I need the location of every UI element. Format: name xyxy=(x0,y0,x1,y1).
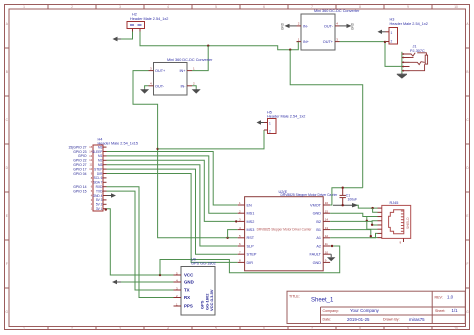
svg-text:1: 1 xyxy=(23,326,25,330)
svg-text:RST: RST xyxy=(247,236,255,240)
svg-text:6: 6 xyxy=(263,5,265,9)
svg-text:SLP: SLP xyxy=(247,244,255,248)
svg-text:DIR: DIR xyxy=(97,172,103,176)
svg-text:OUT-: OUT- xyxy=(324,24,334,28)
svg-text:GND: GND xyxy=(184,280,194,285)
svg-text:OUT+: OUT+ xyxy=(323,40,334,44)
svg-text:Sheet:: Sheet: xyxy=(435,309,445,313)
svg-text:2: 2 xyxy=(71,326,73,330)
svg-text:5V 2: 5V 2 xyxy=(96,203,103,207)
svg-text:12: 12 xyxy=(325,234,329,238)
svg-text:Header Male 2.54_1x2: Header Male 2.54_1x2 xyxy=(130,17,168,21)
svg-text:GPIO 23: GPIO 23 xyxy=(73,150,86,154)
svg-text:STEP: STEP xyxy=(247,253,257,257)
svg-text:16: 16 xyxy=(325,201,329,205)
svg-text:M1: M1 xyxy=(98,154,103,158)
svg-text:GND: GND xyxy=(281,22,285,30)
svg-text:H3: H3 xyxy=(390,18,395,22)
svg-text:3: 3 xyxy=(119,326,121,330)
svg-text:Header Male 2.54_1x2: Header Male 2.54_1x2 xyxy=(267,115,305,119)
svg-text:E: E xyxy=(466,214,468,218)
svg-text:Date:: Date: xyxy=(323,318,332,322)
svg-text:8: 8 xyxy=(359,5,361,9)
svg-text:FAULT: FAULT xyxy=(309,253,321,257)
svg-text:4: 4 xyxy=(167,5,169,9)
svg-text:A2: A2 xyxy=(316,244,321,248)
svg-text:SDA 7: SDA 7 xyxy=(93,181,102,185)
svg-text:9: 9 xyxy=(407,5,409,9)
svg-text:RJ45: RJ45 xyxy=(390,201,399,205)
svg-text:Mini 360 DC-DC Converter: Mini 360 DC-DC Converter xyxy=(167,58,213,62)
svg-text:1: 1 xyxy=(391,31,393,35)
svg-text:3: 3 xyxy=(119,5,121,9)
svg-text:6: 6 xyxy=(263,326,265,330)
svg-text:PPS: PPS xyxy=(184,304,193,309)
svg-text:SCL 6: SCL 6 xyxy=(94,176,103,180)
svg-text:100uF: 100uF xyxy=(348,198,358,202)
svg-text:MS2: MS2 xyxy=(247,220,255,224)
svg-text:5V 3: 5V 3 xyxy=(96,198,103,202)
svg-text:Your Company: Your Company xyxy=(350,308,380,313)
svg-text:7: 7 xyxy=(311,5,313,9)
svg-text:EN: EN xyxy=(247,203,253,207)
svg-text:OUT-: OUT- xyxy=(155,84,165,88)
svg-text:B: B xyxy=(466,70,468,74)
svg-text:Sheet_1: Sheet_1 xyxy=(311,298,334,304)
svg-text:7: 7 xyxy=(311,326,313,330)
svg-text:2: 2 xyxy=(391,40,393,44)
svg-text:E: E xyxy=(6,214,8,218)
svg-text:Mini 360 DC-DC Converter: Mini 360 DC-DC Converter xyxy=(314,9,360,13)
svg-text:13: 13 xyxy=(325,226,329,230)
svg-text:1/1: 1/1 xyxy=(452,308,459,313)
svg-text:VMOT: VMOT xyxy=(310,203,322,207)
svg-text:DRV8825 Stepper Motor Driver C: DRV8825 Stepper Motor Driver Carrier xyxy=(281,193,339,197)
svg-text:5: 5 xyxy=(215,5,217,9)
svg-text:Company:: Company: xyxy=(323,309,339,313)
svg-text:Header Male 2.54_1x15: Header Male 2.54_1x15 xyxy=(98,142,139,146)
svg-text:F: F xyxy=(467,262,469,266)
svg-text:B1: B1 xyxy=(316,228,321,232)
svg-text:TXD: TXD xyxy=(96,189,103,193)
svg-text:GPIO 04: GPIO 04 xyxy=(73,172,86,176)
svg-text:GPIO 22: GPIO 22 xyxy=(73,159,86,163)
svg-text:RX: RX xyxy=(184,295,190,300)
svg-text:GND: GND xyxy=(351,22,355,30)
svg-text:GND: GND xyxy=(313,261,322,265)
svg-text:DIR: DIR xyxy=(247,261,254,265)
svg-text:GND: GND xyxy=(313,212,322,216)
svg-text:2: 2 xyxy=(71,5,73,9)
svg-text:M3: M3 xyxy=(98,163,103,167)
svg-text:M3: M3 xyxy=(98,145,103,149)
svg-text:IN+: IN+ xyxy=(303,40,310,44)
svg-text:TITLE:: TITLE: xyxy=(289,295,300,299)
svg-text:STEP: STEP xyxy=(94,167,102,171)
svg-text:10: 10 xyxy=(454,5,458,9)
svg-text:10: 10 xyxy=(454,326,458,330)
svg-text:F: F xyxy=(6,262,8,266)
svg-text:14: 14 xyxy=(325,218,329,222)
svg-text:2: 2 xyxy=(269,129,271,133)
svg-text:Header Male 2.54_1x2: Header Male 2.54_1x2 xyxy=(390,22,428,26)
svg-text:MS1: MS1 xyxy=(247,212,255,216)
svg-text:A1: A1 xyxy=(316,236,321,240)
svg-text:1: 1 xyxy=(23,5,25,9)
svg-text:B: B xyxy=(6,70,8,74)
svg-text:TX: TX xyxy=(184,288,190,293)
svg-text:miras75: miras75 xyxy=(409,317,425,322)
svg-text:PJ-307C: PJ-307C xyxy=(410,49,425,53)
svg-text:SLEEP: SLEEP xyxy=(92,150,102,154)
svg-text:VCC: VCC xyxy=(184,273,194,278)
svg-text:GPIO 17: GPIO 17 xyxy=(73,167,86,171)
svg-text:15(GPIO 27: 15(GPIO 27 xyxy=(68,145,86,149)
svg-text:8: 8 xyxy=(359,326,361,330)
svg-text:IN+: IN+ xyxy=(179,69,186,73)
svg-text:GPS GG-1802: GPS GG-1802 xyxy=(191,261,216,265)
svg-text:15: 15 xyxy=(325,209,329,213)
svg-text:GPIO 27: GPIO 27 xyxy=(73,163,86,167)
svg-text:5: 5 xyxy=(215,326,217,330)
svg-text:10: 10 xyxy=(325,250,329,254)
svg-text:GPIO 15: GPIO 15 xyxy=(73,189,86,193)
svg-text:4: 4 xyxy=(167,326,169,330)
svg-text:OUT+: OUT+ xyxy=(155,69,166,73)
svg-text:Drawn By:: Drawn By: xyxy=(383,318,400,322)
svg-text:IN-: IN- xyxy=(180,84,186,88)
svg-text:1: 1 xyxy=(269,122,271,126)
svg-text:GND 4: GND 4 xyxy=(93,194,103,198)
svg-text:3V 1: 3V 1 xyxy=(96,207,103,211)
svg-text:REV:: REV: xyxy=(435,295,443,299)
svg-text:VCC:3.3-5V: VCC:3.3-5V xyxy=(209,289,214,311)
svg-text:SHIELD: SHIELD xyxy=(406,217,410,229)
svg-text:M2: M2 xyxy=(98,159,103,163)
svg-text:1.0: 1.0 xyxy=(447,294,454,299)
svg-text:9: 9 xyxy=(407,326,409,330)
svg-text:2019-01-25: 2019-01-25 xyxy=(347,317,370,322)
svg-text:11: 11 xyxy=(325,242,328,246)
svg-text:B2: B2 xyxy=(316,220,321,224)
svg-text:MS3: MS3 xyxy=(247,228,255,232)
svg-text:DRV8825 Stepper Motor Driver C: DRV8825 Stepper Motor Driver Carrier xyxy=(257,227,313,231)
svg-text:RXD: RXD xyxy=(96,185,103,189)
svg-text:IN-: IN- xyxy=(303,24,309,28)
svg-text:GPIO: GPIO xyxy=(78,154,87,158)
svg-text:GPIO 14: GPIO 14 xyxy=(73,185,86,189)
